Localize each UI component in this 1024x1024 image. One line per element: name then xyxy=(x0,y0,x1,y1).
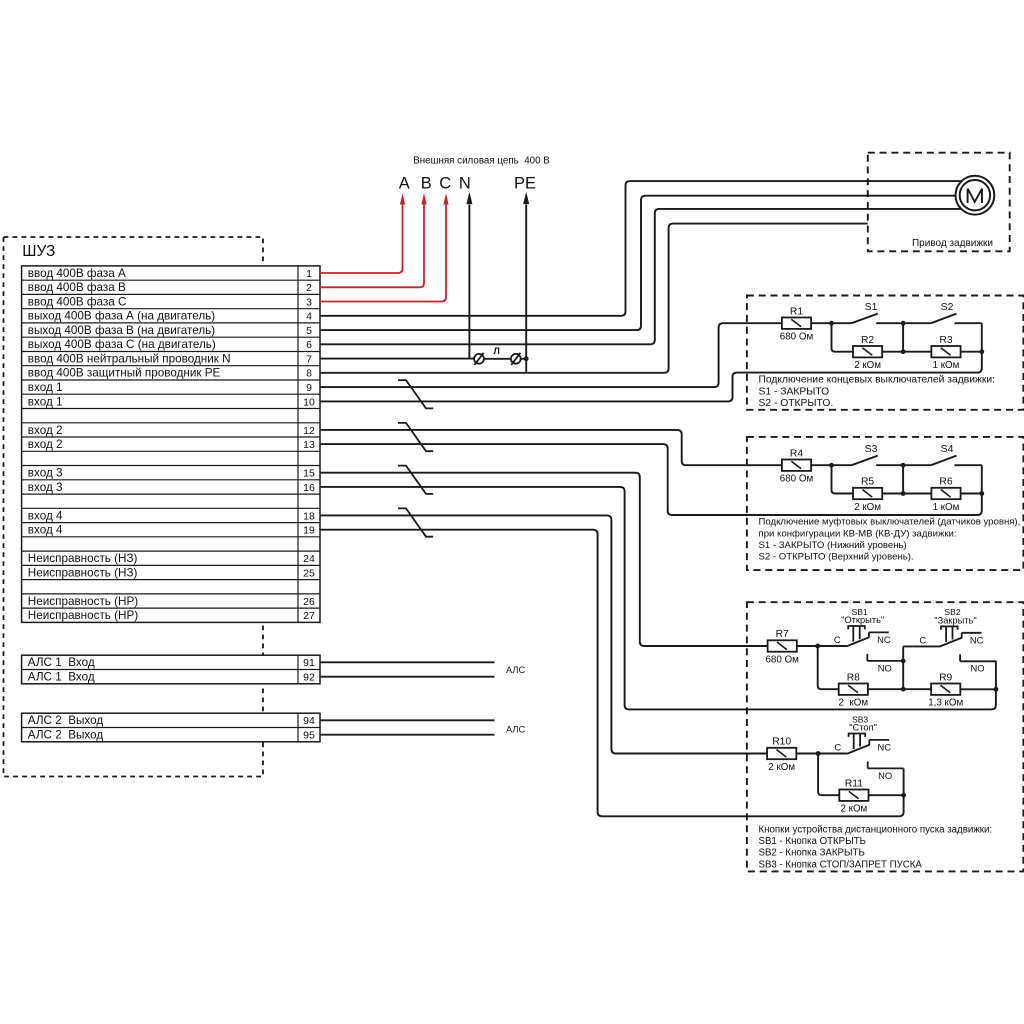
switch S2 xyxy=(903,301,982,323)
wire SB2 NO down to node D3 xyxy=(995,661,997,690)
svg-text:"Открыть": "Открыть" xyxy=(841,615,884,625)
cable slash pair 18/19 xyxy=(398,508,433,536)
pushbutton SB2 Закрыть xyxy=(903,607,996,674)
terminal block АЛС 2 rows 94-95 xyxy=(22,713,320,742)
svg-text:1: 1 xyxy=(306,268,312,280)
svg-text:NC: NC xyxy=(970,634,984,645)
svg-text:2 кОм: 2 кОм xyxy=(854,360,881,371)
wire вход 2 return (terminal 13) from S3/S4 network xyxy=(320,444,982,515)
wire R7 to node A3 xyxy=(797,645,818,647)
svg-text:вход 1: вход 1 xyxy=(28,395,63,408)
svg-text:15: 15 xyxy=(303,468,315,480)
resistor R8 xyxy=(839,672,869,708)
svg-text:C: C xyxy=(439,175,451,193)
wire R1 to node A1 xyxy=(811,322,831,324)
wire АЛС2 terminal 95 xyxy=(320,734,495,736)
svg-text:АЛС 2 Выход: АЛС 2 Выход xyxy=(28,714,104,727)
pushbutton SB1 Открыть xyxy=(818,607,904,674)
wire S4 down to node D2 xyxy=(981,465,983,493)
svg-text:N: N xyxy=(459,175,471,193)
svg-text:ввод 400В фаза А: ввод 400В фаза А xyxy=(28,267,126,280)
resistor R3 xyxy=(931,335,960,371)
wire motor phase C: terminal 6 to motor xyxy=(320,209,961,344)
svg-text:1,3 кОм: 1,3 кОм xyxy=(928,698,963,709)
svg-text:ввод 400В фаза С: ввод 400В фаза С xyxy=(28,295,127,308)
svg-text:2 кОм: 2 кОм xyxy=(840,804,867,815)
svg-text:SB1 - Кнопка ОТКРЫТЬ: SB1 - Кнопка ОТКРЫТЬ xyxy=(759,836,867,847)
dashed box remote start pushbuttons xyxy=(747,602,1024,871)
svg-text:10: 10 xyxy=(303,396,315,408)
junction node D3 xyxy=(994,687,999,692)
svg-text:B: B xyxy=(421,175,432,193)
svg-text:Внешняя силовая цепь 400 В: Внешняя силовая цепь 400 В xyxy=(413,156,550,167)
svg-text:R10: R10 xyxy=(772,737,791,748)
junction node B2 xyxy=(901,463,906,468)
wire node A3 down to R8 xyxy=(818,646,839,689)
resistor R2 xyxy=(853,335,882,371)
svg-text:S2: S2 xyxy=(941,301,954,313)
junction node B3 (SB1 NO) xyxy=(901,659,906,664)
svg-text:выход 400В фаза В (на двигател: выход 400В фаза В (на двигатель) xyxy=(28,324,215,337)
resistor R11 xyxy=(839,778,868,814)
junction node C2 xyxy=(901,491,906,496)
svg-text:Неисправность (НЗ): Неисправность (НЗ) xyxy=(28,566,138,579)
svg-text:R3: R3 xyxy=(939,335,952,346)
svg-text:R1: R1 xyxy=(790,306,803,317)
terminal block ШУЗ main rows 1-27 xyxy=(22,266,320,623)
svg-text:при конфигурации КВ-МВ (КВ-ДУ): при конфигурации КВ-МВ (КВ-ДУ) задвижки: xyxy=(759,528,957,539)
svg-text:Кнопки устройства дистанционно: Кнопки устройства дистанционного пуска з… xyxy=(759,824,993,835)
svg-text:NO: NO xyxy=(878,662,892,673)
svg-text:2: 2 xyxy=(306,282,312,294)
svg-text:вход 2: вход 2 xyxy=(28,438,63,451)
svg-text:Неисправность (НР): Неисправность (НР) xyxy=(28,609,138,622)
wire АЛС1 terminal 91 xyxy=(320,661,495,663)
svg-text:R11: R11 xyxy=(845,778,863,789)
wire SB3 NO down to node E4 xyxy=(903,768,905,795)
dashed box limit switches xyxy=(747,296,1024,410)
svg-text:выход 400В фаза А (на двигател: выход 400В фаза А (на двигатель) xyxy=(28,310,215,323)
wire R6 to node D2 xyxy=(961,493,982,495)
wire motor PE: terminal 8 to drive housing xyxy=(320,224,868,373)
svg-text:вход 3: вход 3 xyxy=(28,467,63,480)
svg-text:19: 19 xyxy=(303,525,315,537)
junction node C3 xyxy=(901,687,906,692)
svg-text:Подключение концевых выключате: Подключение концевых выключателей задвиж… xyxy=(759,375,995,386)
svg-text:R9: R9 xyxy=(939,672,952,683)
wire S2 down to node D1 xyxy=(981,323,983,352)
junction node C1 xyxy=(901,349,906,354)
wire phase C: terminal 3 to arrow C xyxy=(320,193,449,301)
svg-text:91: 91 xyxy=(303,657,315,669)
svg-text:C: C xyxy=(834,634,841,645)
wire вход 1 return (terminal 10) from S1/S2 network xyxy=(320,352,982,402)
junction node A2 xyxy=(829,463,834,468)
svg-text:8: 8 xyxy=(306,368,312,380)
wire node C1 to R3 xyxy=(903,351,932,353)
svg-text:26: 26 xyxy=(303,596,315,608)
svg-text:вход 4: вход 4 xyxy=(28,524,63,537)
svg-text:NO: NO xyxy=(878,770,892,781)
wire R8 to node C3 xyxy=(868,688,903,690)
svg-text:2 кОм: 2 кОм xyxy=(768,762,795,773)
svg-text:R4: R4 xyxy=(790,448,803,459)
wire PE: arrow PE down to terminal 8 wire xyxy=(523,192,529,373)
resistor R7 xyxy=(765,629,799,665)
switch S3 xyxy=(832,443,904,465)
svg-text:1 кОм: 1 кОм xyxy=(933,360,960,371)
svg-text:NO: NO xyxy=(971,663,985,674)
resistor R5 xyxy=(853,477,882,513)
junction node B1 xyxy=(901,321,906,326)
resistor R4 xyxy=(780,448,814,484)
wire вход 4 return (terminal 19) from SB3 network xyxy=(320,530,904,817)
cabinet ШУЗ dashed outline xyxy=(4,237,264,777)
svg-text:S1 - ЗАКРЫТО (Нижний уровень): S1 - ЗАКРЫТО (Нижний уровень) xyxy=(759,540,907,551)
svg-text:Неисправность (НЗ): Неисправность (НЗ) xyxy=(28,552,138,565)
resistor R6 xyxy=(931,477,960,513)
junction node A4 xyxy=(816,751,821,756)
svg-text:4: 4 xyxy=(306,311,312,323)
svg-text:Л: Л xyxy=(494,346,500,356)
svg-text:C: C xyxy=(834,742,841,753)
wire node B3 up to SB2 C xyxy=(902,646,904,689)
svg-text:SB2 - Кнопка ЗАКРЫТЬ: SB2 - Кнопка ЗАКРЫТЬ xyxy=(759,848,865,859)
svg-text:ШУЗ: ШУЗ xyxy=(22,243,55,260)
switch S1 xyxy=(832,301,904,323)
svg-text:680 Ом: 680 Ом xyxy=(780,332,814,343)
wire node A1 down to R2 xyxy=(832,323,854,352)
svg-text:94: 94 xyxy=(303,715,315,727)
svg-text:АЛС 1 Вход: АЛС 1 Вход xyxy=(28,671,95,684)
svg-text:S2 - ОТКРЫТО.: S2 - ОТКРЫТО. xyxy=(759,398,834,409)
junction node A1 xyxy=(829,321,834,326)
wire phase A: terminal 1 to arrow A xyxy=(320,193,405,273)
wire вход 3 (terminal 15) to R7 xyxy=(320,473,768,646)
wire АЛС2 terminal 94 xyxy=(320,719,495,721)
svg-text:7: 7 xyxy=(306,354,312,366)
wire вход 3 return (terminal 16) from SB1/SB2 network xyxy=(320,487,996,710)
wire node B2 down to node C2 xyxy=(902,465,904,493)
svg-text:SB3 - Кнопка СТОП/ЗАПРЕТ ПУСКА: SB3 - Кнопка СТОП/ЗАПРЕТ ПУСКА xyxy=(759,859,923,870)
wire neutral N: arrow N down to terminal 7 wire xyxy=(466,192,472,359)
svg-text:Подключение муфтовых выключате: Подключение муфтовых выключателей (датчи… xyxy=(759,517,1021,528)
wire node B1 down to node C1 xyxy=(902,323,904,352)
svg-text:6: 6 xyxy=(306,339,312,351)
svg-text:25: 25 xyxy=(303,567,315,579)
pushbutton SB3 Стоп xyxy=(818,714,904,781)
wire R2 to node C1 xyxy=(882,351,903,353)
junction N-PE link to PE wire xyxy=(524,356,529,361)
wire R9 to node D3 xyxy=(960,688,996,690)
svg-text:680 Ом: 680 Ом xyxy=(765,655,799,666)
resistor R1 xyxy=(780,306,814,342)
dashed box coupling switches xyxy=(747,437,1024,570)
svg-text:NC: NC xyxy=(877,634,891,645)
svg-text:C: C xyxy=(919,634,926,645)
svg-text:выход 400В фаза С (на двигател: выход 400В фаза С (на двигатель) xyxy=(28,338,216,351)
svg-text:S1 - ЗАКРЫТО: S1 - ЗАКРЫТО xyxy=(759,386,830,397)
caption coupling switches xyxy=(759,517,1021,563)
svg-text:R5: R5 xyxy=(861,477,874,488)
svg-text:АЛС 2 Выход: АЛС 2 Выход xyxy=(28,729,104,742)
svg-text:13: 13 xyxy=(303,439,315,451)
svg-text:вход 4: вход 4 xyxy=(28,509,63,522)
wire R4 to node A2 xyxy=(811,464,831,466)
svg-text:вход 2: вход 2 xyxy=(28,424,63,437)
wire R10 to node A4 xyxy=(796,753,818,755)
svg-text:18: 18 xyxy=(303,510,315,522)
svg-text:R8: R8 xyxy=(847,672,860,683)
junction node E4 xyxy=(901,793,906,798)
cable slash pair 9/10 xyxy=(398,380,433,408)
junction node A3 xyxy=(815,644,820,649)
wire node C3 to R9 xyxy=(903,688,931,690)
wire terminal 7 to N-PE link xyxy=(320,358,474,360)
switch S4 xyxy=(903,443,982,465)
wire вход 2 (terminal 12) to R4 xyxy=(320,430,782,465)
svg-text:A: A xyxy=(399,175,410,193)
svg-text:27: 27 xyxy=(303,610,315,622)
motor M1 xyxy=(956,176,995,215)
wire node A4 down to R11 xyxy=(818,754,839,796)
svg-text:1 кОм: 1 кОм xyxy=(933,502,960,513)
connector link Л (N-PE jumper) xyxy=(474,346,526,365)
svg-text:Неисправность (НР): Неисправность (НР) xyxy=(28,595,138,608)
cable slash pair 12/13 xyxy=(398,423,433,451)
terminal block АЛС 1 rows 91-92 xyxy=(22,655,320,684)
svg-text:24: 24 xyxy=(303,553,315,565)
svg-text:12: 12 xyxy=(303,425,315,437)
svg-text:S1: S1 xyxy=(865,301,878,313)
svg-text:3: 3 xyxy=(306,296,312,308)
svg-text:NC: NC xyxy=(878,742,892,753)
wire node C2 to R6 xyxy=(903,493,932,495)
caption pushbuttons xyxy=(759,824,993,870)
svg-text:ввод 400В защитный проводник Р: ввод 400В защитный проводник РЕ xyxy=(28,367,221,380)
resistor R9 xyxy=(928,672,963,708)
svg-text:Привод задвижки: Привод задвижки xyxy=(912,238,993,249)
svg-text:вход 1: вход 1 xyxy=(28,381,63,394)
svg-text:9: 9 xyxy=(306,382,312,394)
wire motor phase B: terminal 5 to motor xyxy=(320,196,956,330)
svg-text:92: 92 xyxy=(303,672,315,684)
svg-text:95: 95 xyxy=(303,730,315,742)
svg-text:АЛС 1 Вход: АЛС 1 Вход xyxy=(28,656,95,669)
caption limit switches xyxy=(759,375,995,409)
resistor R10 xyxy=(767,737,796,773)
wire node A2 down to R5 xyxy=(832,465,854,493)
svg-text:2 кОм: 2 кОм xyxy=(839,698,869,709)
svg-text:S4: S4 xyxy=(941,443,954,455)
svg-text:ввод 400В фаза В: ввод 400В фаза В xyxy=(28,281,126,294)
wire R5 to node C2 xyxy=(882,493,903,495)
svg-text:АЛС: АЛС xyxy=(506,665,526,675)
svg-text:16: 16 xyxy=(303,482,315,494)
cable slash pair 15/16 xyxy=(398,466,433,494)
svg-text:вход 3: вход 3 xyxy=(28,481,63,494)
svg-text:ввод 400В нейтральный проводни: ввод 400В нейтральный проводник N xyxy=(28,353,231,366)
svg-text:PE: PE xyxy=(514,175,536,193)
junction node D2 xyxy=(979,491,984,496)
wire вход 1 (terminal 9) to R1 xyxy=(320,323,782,387)
svg-text:"Закрыть": "Закрыть" xyxy=(934,616,976,626)
wire phase B: terminal 2 to arrow B xyxy=(320,193,427,287)
enclosure Привод задвижки dashed box xyxy=(868,153,1010,252)
wire вход 4 (terminal 18) to R10 xyxy=(320,515,767,753)
wire motor phase A: terminal 4 to motor xyxy=(320,181,962,316)
svg-text:2 кОм: 2 кОм xyxy=(854,502,881,513)
svg-text:R2: R2 xyxy=(861,335,874,346)
svg-text:5: 5 xyxy=(306,325,312,337)
junction node D1 xyxy=(979,349,984,354)
wire АЛС1 terminal 92 xyxy=(320,676,495,678)
svg-text:АЛС: АЛС xyxy=(506,725,526,735)
wire R3 to node D1 xyxy=(961,351,982,353)
svg-text:"Стоп": "Стоп" xyxy=(849,723,877,733)
wire R11 to node E4 xyxy=(868,794,903,796)
svg-text:S2 - ОТКРЫТО (Верхний уровень): S2 - ОТКРЫТО (Верхний уровень). xyxy=(759,552,914,563)
svg-text:R7: R7 xyxy=(776,629,789,640)
svg-text:S3: S3 xyxy=(865,443,878,455)
svg-text:R6: R6 xyxy=(939,477,952,488)
svg-text:680 Ом: 680 Ом xyxy=(780,474,814,485)
